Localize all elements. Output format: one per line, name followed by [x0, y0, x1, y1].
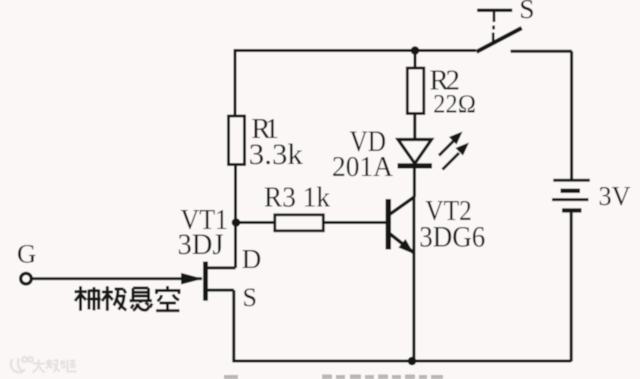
svg-text:S: S — [519, 0, 534, 24]
svg-text:22Ω: 22Ω — [433, 90, 476, 119]
svg-text:201A: 201A — [332, 151, 393, 183]
svg-text:3DJ: 3DJ — [178, 228, 224, 261]
svg-text:R3 1k: R3 1k — [264, 182, 330, 214]
svg-text:3.3k: 3.3k — [249, 138, 303, 171]
svg-text:3DG6: 3DG6 — [419, 222, 485, 254]
svg-text:3V: 3V — [599, 181, 631, 211]
svg-text:S: S — [243, 283, 257, 312]
svg-text:D: D — [242, 244, 262, 274]
svg-text:G: G — [17, 238, 36, 268]
